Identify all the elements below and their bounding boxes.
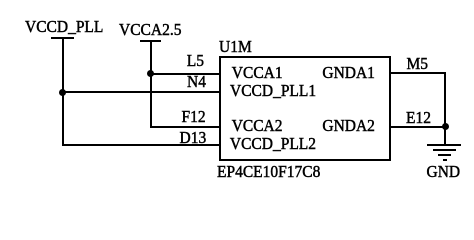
wire M5 from pin GNDA1 — [390, 72, 446, 74]
wire D13 to pin VCCD_PLL2 — [62, 144, 221, 146]
pin name VCCD_PLL2 — [230, 136, 316, 153]
wire N4 to pin VCCD_PLL1 — [62, 91, 221, 93]
power symbol VCCD_PLL (bar) — [51, 37, 74, 39]
pin number M5 — [407, 56, 429, 73]
pin name GNDA2 — [322, 118, 375, 135]
op IC U1M body — [219, 56, 391, 161]
pin number D13 — [180, 130, 207, 147]
net label GND — [427, 163, 461, 180]
wire L5 to pin VCCA1 — [150, 73, 221, 75]
pin number L5 — [187, 53, 204, 70]
pin name VCCD_PLL1 — [230, 83, 316, 100]
junction dot E12/ground stem — [442, 123, 449, 130]
net label VCCD_PLL — [25, 19, 103, 36]
pin name VCCA1 — [232, 65, 283, 82]
ground symbol bar 4 — [443, 159, 448, 161]
power symbol VCCA2.5 (bar) — [140, 40, 161, 42]
junction dot VCCA2.5/L5 — [147, 70, 154, 77]
ground symbol bar 3 — [438, 154, 451, 156]
reference designator U1M — [219, 39, 252, 56]
ground symbol bar 1 — [427, 144, 462, 146]
junction dot VCCD_PLL/N4 — [59, 89, 66, 96]
wire right vertical to ground — [444, 72, 446, 145]
wire F12 to pin VCCA2 — [150, 126, 221, 128]
wire E12 from pin GNDA2 — [390, 126, 446, 128]
pin name VCCA2 — [232, 118, 283, 135]
wire VCCA2.5 vertical stem — [150, 41, 152, 128]
part value EP4CE10F17C8 — [217, 164, 320, 181]
pin name GNDA1 — [322, 65, 375, 82]
pin number E12 — [406, 109, 431, 126]
net label VCCA2.5 — [119, 21, 181, 38]
pin number N4 — [187, 74, 206, 91]
wire VCCD_PLL vertical stem — [62, 38, 64, 146]
pin number F12 — [182, 109, 206, 126]
ground symbol bar 2 — [433, 149, 456, 151]
